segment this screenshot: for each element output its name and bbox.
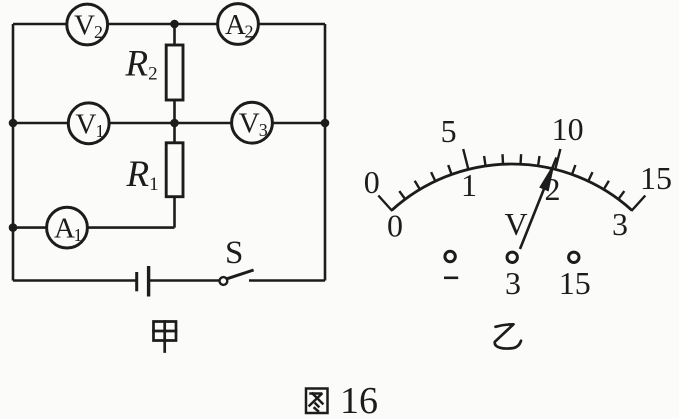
svg-text:10: 10 bbox=[552, 111, 584, 147]
svg-text:16: 16 bbox=[340, 380, 378, 419]
svg-text:V: V bbox=[504, 206, 527, 242]
svg-text:15: 15 bbox=[559, 265, 591, 301]
svg-text:0: 0 bbox=[387, 208, 403, 244]
svg-text:S: S bbox=[225, 235, 243, 271]
svg-text:15: 15 bbox=[640, 160, 672, 196]
svg-text:1: 1 bbox=[461, 167, 477, 203]
svg-text:2: 2 bbox=[545, 171, 561, 207]
svg-text:3: 3 bbox=[612, 206, 628, 242]
svg-text:3: 3 bbox=[505, 265, 521, 301]
svg-text:5: 5 bbox=[441, 113, 457, 149]
svg-text:0: 0 bbox=[364, 164, 380, 200]
